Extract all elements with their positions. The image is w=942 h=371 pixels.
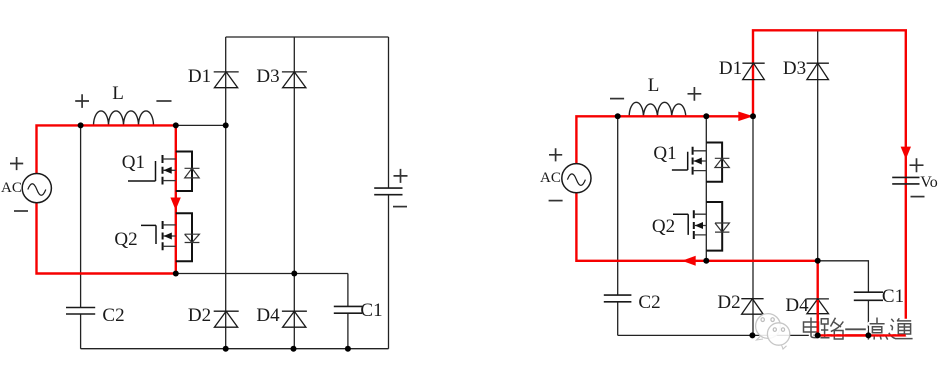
Q1 gate lead xyxy=(128,161,156,181)
polarity - (left output cap) xyxy=(393,206,407,208)
wire: node-B to D1 leg horizontal xyxy=(176,124,226,126)
transistor Q1 (left) xyxy=(122,152,200,192)
svg-text:C1: C1 xyxy=(882,286,904,307)
capacitor C1 (left) xyxy=(334,306,362,313)
diode D2 (right) xyxy=(741,299,763,315)
Q1 channel bars xyxy=(162,155,164,185)
diode D4 (left) xyxy=(282,311,307,327)
svg-text:C2: C2 xyxy=(102,305,124,326)
capacitor C2 (left) xyxy=(66,308,95,315)
wire: D3/D4 leg vertical xyxy=(293,37,295,349)
wire: D1/D2 leg vertical xyxy=(225,37,227,349)
inductor L (left) xyxy=(94,111,154,125)
Q2 stubs right xyxy=(694,214,707,235)
svg-text:C2: C2 xyxy=(638,292,660,313)
Q1 body-diode loop right xyxy=(706,143,722,182)
Q1 gate lead right xyxy=(672,152,688,170)
polarity + (left inductor) xyxy=(75,94,89,108)
node: C2 top junction xyxy=(78,122,84,128)
Q1 arrow right xyxy=(694,158,702,165)
AC source V1 (right) xyxy=(562,164,591,193)
logo bubble big xyxy=(756,314,781,339)
red: AC to top node xyxy=(576,116,753,163)
red: AC bottom to lower bus to D4 xyxy=(576,193,817,261)
node: D1/D2 midpoint junction xyxy=(223,122,229,128)
Q1 body-diode loop xyxy=(176,152,192,192)
junction dots (right) xyxy=(615,113,872,338)
capacitor C2 (right) xyxy=(604,295,632,302)
watermark text 电路一点通 (drawn as strokes) xyxy=(804,318,913,340)
transistor Q2 (left) xyxy=(114,213,199,261)
Q1 stubs right xyxy=(693,151,707,171)
wire: output branch vertical xyxy=(388,37,390,349)
svg-text:D3: D3 xyxy=(256,66,279,87)
Q2 body-diode loop xyxy=(176,213,192,261)
Q2 body diode symbol right xyxy=(715,223,729,232)
svg-text:L: L xyxy=(648,75,660,96)
svg-text:D4: D4 xyxy=(785,295,809,316)
AC source V1 (left) xyxy=(22,174,51,203)
red arrow right (top, before D1 node) xyxy=(738,112,753,122)
Q1 body diode symbol xyxy=(185,168,200,178)
diode D4 (right) xyxy=(807,299,829,314)
node: MOSFET source bus corner xyxy=(173,271,179,277)
Q2 gate lead right xyxy=(673,214,688,235)
Q2 gate lead xyxy=(141,225,156,244)
red: D1 leg up and top bus to Vo xyxy=(753,30,906,335)
wire: C2 branch vertical right xyxy=(617,116,619,335)
Q1 channel bars right xyxy=(692,147,694,175)
logo bubble small xyxy=(767,323,789,345)
output capacitor (left) xyxy=(374,188,402,195)
node: D3/D4 midpoint right xyxy=(815,258,821,264)
svg-text:D2: D2 xyxy=(188,305,211,326)
Q2 drain stub xyxy=(163,224,176,226)
wire: bottom bus left circuit xyxy=(81,348,389,350)
node: C1 bottom junction xyxy=(345,346,351,352)
svg-text:AC: AC xyxy=(1,180,22,196)
node: D4 bottom junction xyxy=(291,346,297,352)
Q2 body-diode loop right xyxy=(706,202,722,251)
polarity - (right inductor) xyxy=(610,98,624,100)
svg-text:D1: D1 xyxy=(188,66,211,87)
wire: red AC loop (left) xyxy=(37,125,176,273)
wire: D2 leg vertical (below junction) xyxy=(752,116,754,335)
transistor Q2 (right) xyxy=(652,202,730,251)
diode D1 (right) xyxy=(742,63,764,79)
node: inductor-MOSFET junction right xyxy=(703,113,709,119)
Q1 body diode symbol right xyxy=(715,158,730,167)
wire: top bus left circuit xyxy=(226,36,389,38)
svg-text:D4: D4 xyxy=(256,305,280,326)
svg-text:Q2: Q2 xyxy=(652,216,675,237)
node: inductor-MOSFET junction xyxy=(173,122,179,128)
Q1 source stub xyxy=(163,180,176,182)
output capacitor Vo (right) xyxy=(892,177,919,184)
svg-text:C1: C1 xyxy=(360,300,382,321)
Q2 channel bars xyxy=(162,221,164,250)
Q2 body diode symbol xyxy=(185,234,200,242)
polarity + (right source) xyxy=(549,148,562,161)
wire: bottom bus right (black part) xyxy=(618,334,818,336)
wire: C1 branch vertical xyxy=(347,274,349,349)
Q2 source stub xyxy=(163,245,176,247)
watermark logo bubbles xyxy=(756,314,790,349)
svg-text:Q1: Q1 xyxy=(122,152,145,173)
diode D1 (left) xyxy=(214,72,239,88)
junction dots (left) xyxy=(78,122,351,351)
polarity + (left output cap) xyxy=(394,169,408,183)
svg-text:L: L xyxy=(112,83,124,104)
node: D2 bottom junction right xyxy=(749,332,755,338)
wire: D3 leg vertical (black upper part) xyxy=(817,30,819,260)
svg-text:D3: D3 xyxy=(783,58,806,79)
red arrow left (lower bus) xyxy=(682,256,696,266)
inductor L (right) xyxy=(629,102,686,116)
wire: MOSFET branch vertical right xyxy=(705,116,707,260)
polarity + (right inductor) xyxy=(688,87,702,101)
red current arrow (left, between Q1 and Q2) xyxy=(170,198,180,211)
transistor Q1 (right) xyxy=(653,143,729,182)
svg-text:AC: AC xyxy=(540,170,561,186)
capacitor C1 (right) xyxy=(854,292,883,300)
Q2 arrow right xyxy=(695,222,703,229)
polarity + (Vo) xyxy=(910,158,924,172)
node: D1/D2 midpoint right xyxy=(750,113,756,119)
node: C1 bottom junction right xyxy=(865,332,871,338)
wire: mid horizontal source bus xyxy=(176,273,348,275)
polarity - (left inductor) xyxy=(156,100,171,102)
node: D4 bottom junction right xyxy=(815,332,821,338)
node: D3/D4 midpoint junction xyxy=(291,271,297,277)
node: Q2 source junction right xyxy=(703,258,709,264)
svg-text:Vo: Vo xyxy=(920,174,938,191)
red arrow down (Vo branch) xyxy=(901,147,911,160)
wire: red path (right circuit) xyxy=(576,30,905,335)
Q2 body stub with arrow xyxy=(163,235,176,237)
polarity - (left source) xyxy=(14,210,28,212)
svg-text:D2: D2 xyxy=(717,292,740,313)
Q2 channel bars right xyxy=(693,210,695,239)
svg-text:Q1: Q1 xyxy=(653,143,676,164)
Q1 drain stub xyxy=(163,158,176,160)
diode D3 (right) xyxy=(807,63,829,79)
svg-text:Q2: Q2 xyxy=(114,229,137,250)
wire: C1 branch right xyxy=(818,261,869,336)
red: D4 leg down xyxy=(817,261,819,336)
red overdraw: D4 leg + bottom red bus (over watermark) xyxy=(818,300,906,335)
polarity - (Vo) xyxy=(911,196,925,198)
wire: C2 branch vertical xyxy=(80,125,82,348)
node: C2 top junction right xyxy=(615,113,621,119)
Q1 body stub with arrow xyxy=(163,169,176,171)
svg-text:D1: D1 xyxy=(719,58,742,79)
node: D2 bottom junction xyxy=(223,346,229,352)
diode D2 (left) xyxy=(214,311,239,327)
polarity + (left source) xyxy=(10,157,23,170)
diode D3 (left) xyxy=(282,72,307,88)
polarity - (right source) xyxy=(549,200,563,202)
